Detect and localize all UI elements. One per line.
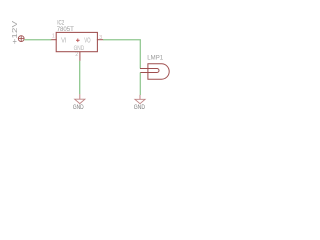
pin VI of IC2 (pin 1) bbox=[51, 39, 57, 41]
supply symbol +12V label bbox=[10, 20, 19, 45]
wire corner down to lamp (vertical) bbox=[139, 40, 141, 69]
svg-text:1: 1 bbox=[52, 34, 55, 40]
svg-text:GND: GND bbox=[74, 45, 85, 52]
svg-text:7805T: 7805T bbox=[57, 26, 74, 33]
wire from IC2 GND pin down to ground bbox=[79, 61, 81, 95]
lamp filament loop bbox=[157, 69, 159, 73]
svg-text:GND: GND bbox=[134, 104, 146, 111]
pin VO of IC2 (pin 3) bbox=[97, 39, 103, 41]
lamp pin 1 and filament top lead bbox=[140, 68, 157, 70]
svg-text:3: 3 bbox=[99, 35, 102, 41]
pin GND of IC2 (pin 2) bbox=[79, 52, 81, 61]
op-amp/regulator IC2 box bbox=[56, 32, 97, 51]
lamp LMP1 bulb envelope bbox=[148, 64, 169, 79]
wire from lamp pin 2 down to ground bbox=[139, 73, 141, 96]
ground GND2 pin stub bbox=[139, 95, 141, 99]
svg-text:VI: VI bbox=[61, 38, 66, 45]
wire from VO pin to lamp (horizontal) bbox=[103, 39, 141, 41]
svg-text:VO: VO bbox=[84, 38, 91, 45]
ground GND2 triangle bbox=[135, 99, 145, 103]
svg-text:+12V: +12V bbox=[10, 20, 19, 45]
svg-text:2: 2 bbox=[75, 52, 78, 58]
svg-text:GND: GND bbox=[73, 104, 84, 111]
wire from +12V to VI pin bbox=[24, 39, 51, 41]
polarity plus mark bbox=[76, 39, 80, 43]
ground GND1 triangle bbox=[75, 99, 85, 103]
lamp pin 2 and filament bottom lead bbox=[140, 72, 157, 74]
supply symbol +12V circle bbox=[18, 36, 24, 42]
svg-text:LMP1: LMP1 bbox=[147, 55, 163, 62]
ground GND1 pin stub bbox=[79, 94, 81, 99]
